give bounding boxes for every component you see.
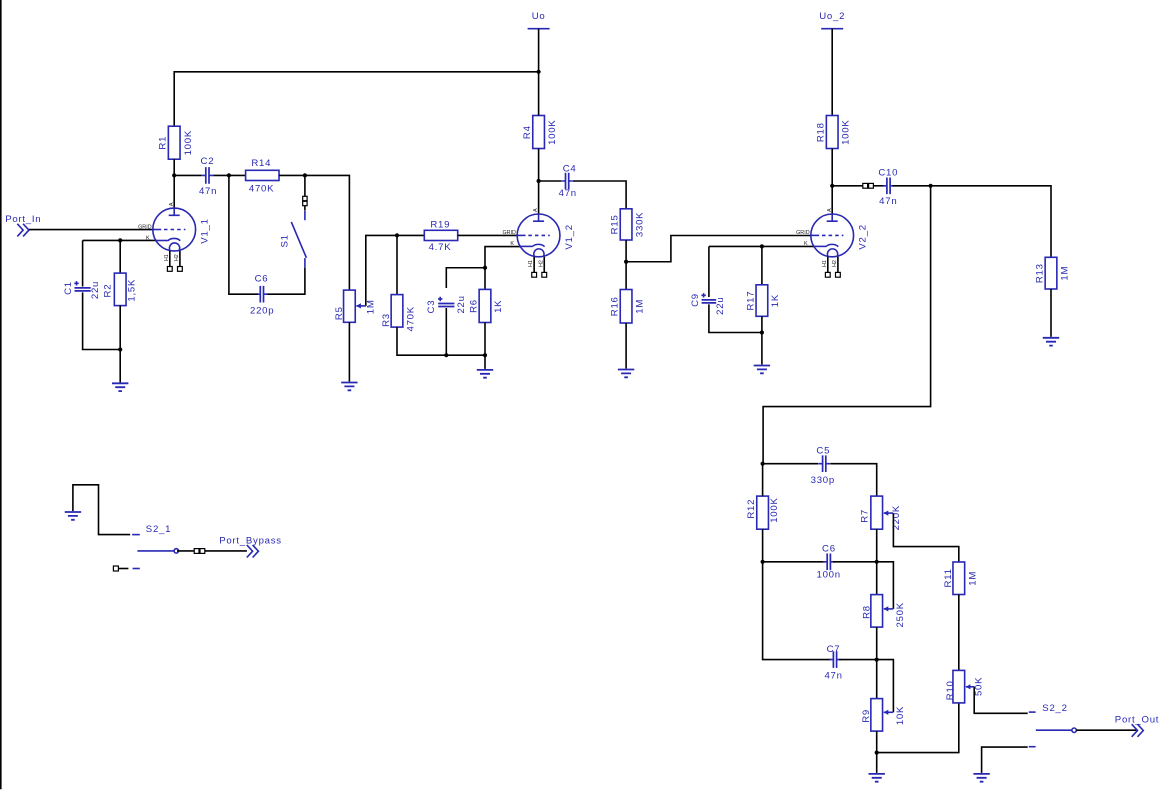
svg-text:100K: 100K (841, 119, 852, 144)
resistor R13 (1035, 257, 1071, 289)
junction R2/C1/ground (118, 347, 122, 351)
svg-text:R1: R1 (158, 136, 169, 150)
svg-text:S2_2: S2_2 (1042, 703, 1067, 714)
port Port_Out (1115, 715, 1159, 737)
wire R3 top (396, 235, 398, 294)
svg-text:R3: R3 (381, 313, 392, 327)
wire R14 right to R5 top (279, 175, 349, 290)
junction R17/C9 bottom (760, 330, 764, 334)
wire bottom rail R3-R6 (397, 327, 485, 355)
svg-text:H2: H2 (174, 254, 180, 261)
svg-text:4.7K: 4.7K (429, 242, 452, 253)
svg-text:100K: 100K (183, 130, 194, 155)
svg-text:C5: C5 (816, 445, 830, 456)
svg-text:K: K (510, 241, 514, 247)
svg-text:V2_2: V2_2 (857, 224, 868, 249)
junction R5wiper/R3/R19 (395, 233, 399, 237)
svg-text:R13: R13 (1035, 263, 1046, 283)
capacitor C2 (199, 156, 217, 197)
ground below R16 (618, 370, 634, 378)
junction R1/C2/V1_1 anode (172, 173, 176, 177)
wire C3 bottom (445, 308, 447, 355)
wire R8 bottom (876, 627, 878, 660)
junction C9/R17/K (760, 244, 764, 248)
wire R7 wiper to R11 (893, 513, 958, 562)
capacitor C6 (817, 543, 841, 580)
svg-text:330p: 330p (811, 475, 835, 486)
resistor R17 (746, 285, 782, 317)
resistor R16 (610, 290, 646, 324)
power supply Uo_2 (821, 28, 843, 30)
junction R6 bottom (483, 353, 487, 357)
wire S2_2 lower contact to ground (982, 747, 1028, 773)
svg-text:R17: R17 (746, 291, 757, 311)
wire R12 top (762, 464, 764, 496)
svg-text:1K: 1K (770, 294, 781, 307)
svg-text:220p: 220p (250, 306, 274, 317)
wire R7 bottom (876, 529, 878, 562)
svg-text:R14: R14 (251, 158, 271, 169)
svg-text:1M: 1M (635, 299, 646, 314)
wire Port_In to V1_1 grid (29, 229, 153, 231)
svg-text:V1_2: V1_2 (564, 224, 575, 249)
wire R18 bottom (831, 149, 833, 186)
svg-text:330K: 330K (635, 212, 646, 237)
wire R11 bottom to R10 top (958, 595, 960, 671)
wire R1 bottom to junction (173, 159, 175, 175)
wire junction to R9 wiper (877, 660, 894, 713)
capacitor C6a 220p (250, 274, 274, 317)
wire C1 bottom to R2 bottom rail (83, 292, 121, 349)
svg-text:R6: R6 (469, 299, 480, 313)
junction R4/C4/V1_2 anode (537, 179, 541, 183)
wiper arrow R9 (884, 711, 893, 713)
wire down to C1 (82, 240, 84, 286)
junction R14/S1/R5 (303, 173, 307, 177)
potentiometer R7 (860, 496, 903, 530)
junction C10/R13/tone stack (929, 184, 933, 188)
wire C2 to R14 (213, 174, 245, 176)
wire R17 bottom (761, 316, 763, 332)
wire S2_2 pole to Port_Out (1076, 729, 1137, 731)
capacitor C1 (63, 281, 101, 299)
wire junction to C3 (446, 268, 485, 288)
svg-text:1M: 1M (365, 299, 376, 314)
svg-text:100K: 100K (547, 119, 558, 144)
capacitor C10 (878, 168, 898, 208)
wire junction to R13 (931, 186, 1051, 257)
junction K/R2 (118, 238, 122, 242)
svg-text:C6: C6 (255, 274, 269, 285)
triode V1_1 (138, 202, 210, 271)
wire Uo_2 to R18 (831, 29, 833, 116)
wire R9 bottom (876, 731, 878, 753)
wire R10 wiper to S2_2 (974, 687, 1027, 714)
wire R15 bottom (625, 240, 627, 262)
svg-text:1K: 1K (493, 300, 504, 313)
junction C7/R8/R9 (875, 658, 879, 662)
svg-text:GRID: GRID (138, 224, 152, 230)
svg-text:C9: C9 (690, 293, 701, 307)
svg-text:C6: C6 (822, 543, 836, 554)
svg-text:Port_Bypass: Port_Bypass (219, 535, 282, 546)
wire V1_2 cathode net (485, 247, 521, 268)
svg-text:K: K (146, 235, 150, 241)
wire R2 bottom (119, 306, 121, 350)
svg-text:R2: R2 (103, 284, 114, 298)
resistor R14 (246, 158, 279, 194)
pin squares C10 branch (863, 183, 868, 188)
svg-text:R9: R9 (861, 709, 872, 723)
wire R8 top (876, 562, 878, 595)
svg-text:R18: R18 (816, 122, 827, 142)
wire C7 right (839, 659, 877, 661)
svg-text:1,5K: 1,5K (127, 279, 138, 302)
svg-text:Port_Out: Port_Out (1115, 715, 1159, 726)
svg-text:R8: R8 (862, 605, 873, 619)
svg-text:47n: 47n (559, 188, 577, 199)
potentiometer R8 (862, 595, 906, 628)
svg-text:H2: H2 (832, 260, 838, 267)
pin stub S2_1 lower contact (113, 566, 118, 571)
wire bottom rail to R10 (877, 703, 959, 753)
wire Uo to node (538, 29, 540, 72)
wire C6 right (833, 561, 877, 563)
svg-text:22u: 22u (456, 295, 467, 313)
svg-text:R15: R15 (610, 214, 621, 234)
sheet border (0, 0, 2, 789)
capacitor C4 (559, 164, 577, 200)
switch S2_2 (1029, 703, 1077, 747)
wire C9 top (708, 246, 710, 297)
wire C4 to R15 (573, 181, 626, 209)
capacitor C5 (811, 445, 835, 486)
svg-text:R11: R11 (943, 568, 954, 587)
switch S1 (280, 211, 307, 268)
svg-text:Uo: Uo (532, 11, 546, 22)
port Port_Bypass (219, 535, 282, 557)
wire S1 pin stub (304, 206, 306, 211)
resistor R11 (943, 562, 979, 595)
wire ground to S2_1 contact (73, 485, 130, 535)
svg-text:R4: R4 (522, 125, 533, 139)
wire R13 bottom (1050, 289, 1052, 337)
svg-text:47n: 47n (879, 196, 897, 207)
wire C7 left rail (763, 562, 831, 660)
svg-text:47n: 47n (199, 186, 217, 197)
svg-text:R10: R10 (945, 680, 956, 700)
svg-text:R16: R16 (610, 296, 621, 316)
svg-text:C3: C3 (426, 300, 437, 314)
resistor R12 (746, 496, 780, 529)
wire R16 bottom (625, 323, 627, 369)
ground below R6 (477, 370, 493, 378)
wire C6 left (763, 561, 825, 563)
svg-text:250K: 250K (895, 602, 906, 627)
pin squares S1 top (303, 196, 307, 200)
wire to ground (761, 333, 763, 365)
wire to ground (876, 753, 878, 773)
svg-text:100K: 100K (769, 497, 780, 522)
wire R9 top (876, 660, 878, 699)
potentiometer R10 (945, 670, 984, 703)
wire C5 left (763, 463, 819, 465)
resistor R4 (522, 116, 558, 149)
wire R5 wiper net (366, 235, 397, 306)
svg-text:Uo_2: Uo_2 (819, 11, 845, 22)
wire junction to pin squares (832, 185, 863, 187)
svg-text:H1: H1 (822, 260, 828, 267)
svg-text:A: A (533, 208, 539, 212)
resistor R19 (424, 219, 457, 253)
junction C3/R6/K (483, 266, 487, 270)
wire junction down to S1 pin (304, 175, 306, 196)
ground below R9 (869, 774, 885, 782)
wire squares to C10 (873, 185, 884, 187)
capacitor C9 (690, 293, 726, 315)
ground below R5 (341, 383, 357, 391)
wire junction to V1_2 anode (538, 181, 540, 215)
resistor R3 (381, 295, 416, 332)
wire junction to V1_1 anode (173, 175, 175, 209)
svg-text:22u: 22u (90, 281, 101, 299)
junction R15/R16/grid net (624, 260, 628, 264)
svg-text:K: K (804, 241, 808, 247)
svg-text:1M: 1M (967, 571, 978, 586)
pin squares Port_Bypass wire (194, 549, 199, 554)
svg-text:R7: R7 (860, 509, 871, 523)
wire C10 to junction (893, 185, 931, 187)
svg-text:GRID: GRID (796, 230, 810, 236)
wire R2 top (119, 240, 121, 273)
junction C3 bottom (444, 353, 448, 357)
svg-text:H1: H1 (528, 260, 534, 267)
wire R6 top (484, 268, 486, 290)
svg-text:C2: C2 (201, 156, 215, 167)
junction C6/R7/R8 (875, 560, 879, 564)
wire R6 bottom to ground (484, 323, 486, 369)
capacitor C3 (426, 295, 467, 313)
port Port_In (5, 214, 41, 237)
svg-text:47n: 47n (824, 671, 842, 682)
svg-text:S1: S1 (280, 234, 291, 247)
svg-text:V1_1: V1_1 (199, 218, 210, 243)
wiper arrow R10 (966, 686, 975, 688)
junction C2/R14/C6 branch (227, 173, 231, 177)
wire R17 top (761, 246, 763, 284)
wire junction to V2_2 anode (831, 186, 833, 215)
switch S2_1 (132, 524, 178, 568)
junction R12/C6 (761, 560, 765, 564)
junction R9/R10/ground (875, 751, 879, 755)
wire C5 right to R7 top (830, 464, 877, 496)
ground below R17 (754, 366, 770, 374)
svg-text:H2: H2 (538, 260, 544, 267)
junction R18/C10/V2_2 anode (830, 184, 834, 188)
wire R16 top (625, 262, 627, 290)
power supply Uo (528, 28, 550, 30)
wire junction to R8 wiper (877, 562, 894, 609)
svg-text:A: A (169, 202, 175, 206)
wire R12 bottom (762, 529, 764, 562)
wire tone stack feed (763, 186, 931, 464)
wire S1 bottom to C6 (266, 268, 305, 295)
ground S2_1 (65, 512, 81, 520)
wire C6 left to junction rail (229, 175, 258, 294)
svg-text:C10: C10 (878, 168, 898, 179)
wire R5 bottom (348, 322, 350, 381)
ground below R2 (112, 383, 128, 391)
triode V1_2 (502, 208, 574, 277)
potentiometer R9 (861, 699, 906, 732)
svg-text:1M: 1M (1060, 266, 1071, 281)
wiper arrow R7 (884, 512, 893, 514)
wire V2_2 cathode net (709, 245, 815, 247)
svg-text:100n: 100n (817, 569, 841, 580)
svg-text:Port_In: Port_In (5, 214, 41, 225)
svg-text:R19: R19 (430, 219, 450, 230)
svg-text:H1: H1 (164, 254, 170, 261)
ground below R13 (1043, 338, 1059, 346)
resistor R1 (158, 126, 194, 159)
svg-text:R12: R12 (746, 499, 757, 519)
resistor R6 (469, 289, 505, 322)
wire R1 top rail (174, 72, 538, 126)
triode V2_2 (796, 208, 868, 277)
resistor R2 (103, 273, 138, 306)
wire junction to R19 (397, 234, 424, 236)
wiper arrow R5 (356, 305, 366, 307)
wire R4 bottom to anode junction (538, 149, 540, 182)
svg-text:GRID: GRID (502, 230, 516, 236)
ground below S2_2 (973, 774, 989, 782)
svg-text:C7: C7 (827, 644, 841, 655)
capacitor C7 (824, 644, 842, 682)
wiper arrow R8 (884, 608, 893, 610)
svg-text:C1: C1 (63, 281, 74, 295)
svg-text:C4: C4 (563, 164, 577, 175)
wire junction to C4 (539, 180, 562, 182)
svg-text:22u: 22u (715, 297, 726, 315)
junction C5/R12 (761, 462, 765, 466)
wire to ground (119, 350, 121, 383)
svg-text:A: A (827, 208, 833, 212)
wire C9 bottom rail (709, 304, 762, 332)
svg-text:R5: R5 (334, 306, 345, 320)
wire S2_1 pole to Port_Bypass (177, 550, 247, 552)
svg-text:S2_1: S2_1 (146, 524, 171, 535)
wire junction to V2_2 grid (626, 236, 811, 262)
resistor R15 (610, 209, 646, 240)
resistor R18 (816, 116, 852, 149)
svg-text:470K: 470K (249, 183, 274, 194)
svg-text:10K: 10K (895, 706, 906, 725)
wire R19 to V1_2 grid (458, 234, 518, 236)
wire V1_1 cathode net (83, 239, 156, 241)
svg-text:470K: 470K (405, 306, 416, 331)
potentiometer R5 (334, 290, 376, 322)
svg-text:50K: 50K (973, 677, 984, 696)
wire Uo junction to R4 (538, 72, 540, 116)
junction Uo/R1/R4 (537, 70, 541, 74)
wire junction to C2 (174, 174, 201, 176)
